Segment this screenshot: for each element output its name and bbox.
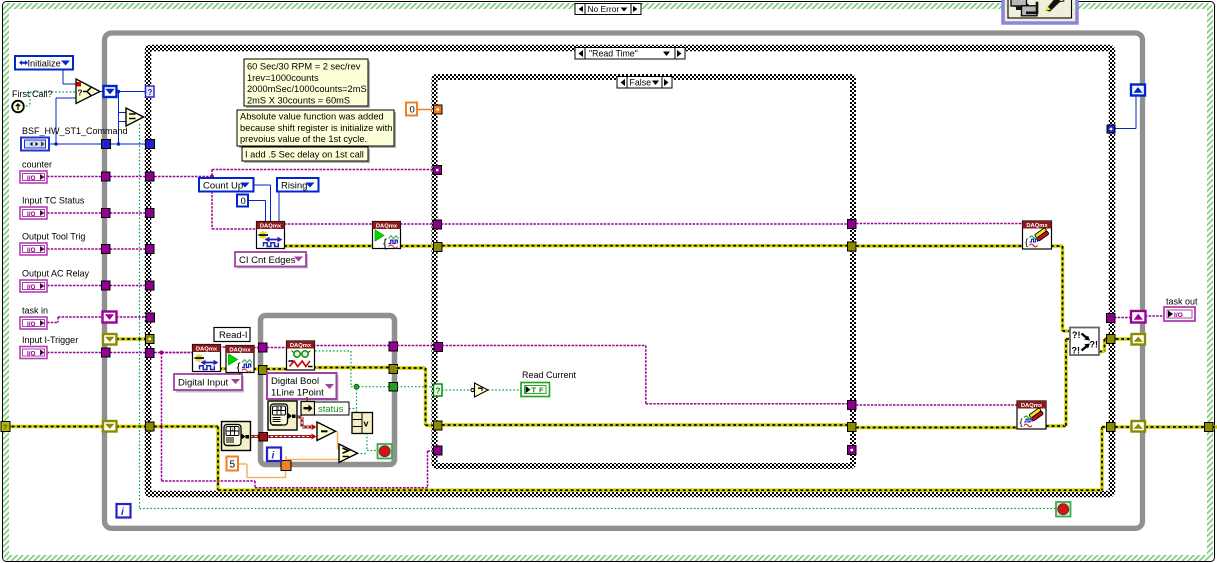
svg-text:Digital Bool: Digital Bool	[271, 376, 319, 387]
unbundle by name node	[301, 402, 315, 416]
svg-text:{: {	[237, 360, 241, 374]
svg-text:1rev=1000counts: 1rev=1000counts	[247, 73, 319, 83]
outer while loop border	[105, 33, 1143, 528]
svg-text:v: v	[364, 419, 369, 429]
case selector label "False"	[617, 77, 672, 89]
terminal BSF_HW_ST1_Command (enum)	[21, 138, 49, 151]
wire bool junction down to OR	[356, 389, 358, 413]
subtract node	[317, 422, 336, 441]
tunnels False left (counter pair)	[433, 220, 442, 229]
wire task out	[1114, 317, 1132, 319]
wire Read bool out	[315, 350, 351, 352]
wire tunnel->gte	[285, 456, 287, 460]
wire Output Tool Trig	[47, 248, 147, 250]
svg-text:i: i	[121, 507, 124, 518]
outer case selector terminal	[1, 422, 10, 432]
wire case tunnel->blue SR right	[1115, 128, 1136, 130]
First Call? node	[12, 101, 24, 113]
svg-text:5: 5	[230, 460, 236, 471]
svg-text:I/O: I/O	[27, 211, 36, 218]
False case selector terminal	[434, 384, 443, 396]
svg-text:0: 0	[410, 105, 415, 116]
tunnel error case left (bottom)	[146, 422, 155, 431]
wire create->start (counter chain)	[284, 223, 374, 225]
svg-text:?: ?	[436, 387, 441, 396]
indicator Read Current (TF)	[521, 383, 550, 397]
wire Output AC Relay	[47, 285, 147, 287]
comment box delay	[244, 149, 370, 163]
svg-text:DAQmx: DAQmx	[290, 343, 312, 349]
iteration terminal (outer)	[117, 504, 131, 518]
svg-text:Rising: Rising	[281, 181, 307, 192]
DAQmx Read (digital bool)	[287, 341, 315, 370]
svg-text:?: ?	[78, 89, 83, 98]
svg-text:Count Up: Count Up	[203, 181, 243, 192]
tunnels False right (read chain)	[848, 401, 857, 410]
svg-text:prevoius value of the 1st cycl: prevoius value of the 1st cycle.	[240, 134, 367, 144]
ring constant Digital Bool 1Line 1Point	[269, 375, 339, 401]
tunnel bool inner loop right	[389, 383, 398, 392]
wire Input I-Trigger task	[47, 352, 194, 354]
wire equal->stop (long)	[139, 124, 141, 509]
tunnel blue case right	[1107, 125, 1115, 133]
tunnel error case left (mid)	[146, 335, 155, 344]
wire select->shift register	[100, 91, 104, 93]
wire task in	[47, 322, 58, 324]
wire shift register->case selector	[116, 91, 146, 93]
greater or equal node	[339, 444, 358, 463]
label Read-I	[214, 328, 250, 342]
Get Date/Time node (inner)	[268, 401, 297, 430]
svg-text:i: i	[272, 451, 275, 462]
loop stop terminal (inner)	[378, 444, 393, 459]
tunnel error outer border right	[1205, 423, 1214, 432]
svg-text:0: 0	[241, 196, 246, 207]
blue shift register left	[104, 86, 117, 97]
svg-text:2mS X 30counts = 60mS: 2mS X 30counts = 60mS	[247, 95, 350, 105]
svg-text:1Line 1Point: 1Line 1Point	[271, 388, 324, 399]
iteration terminal (inner)	[267, 448, 281, 462]
wire branch to equal node	[118, 92, 120, 145]
tunnel error case right (bottom)	[1107, 423, 1116, 432]
equal? node	[126, 108, 144, 126]
svg-text:12: 12	[277, 406, 283, 411]
wire clock outer->subtract	[250, 435, 260, 438]
svg-text:I/O: I/O	[27, 175, 36, 182]
tunnel error case right (mid)	[1107, 335, 1116, 344]
wire False->clear (lower)	[856, 404, 1018, 406]
error shift register left (mid)	[103, 334, 117, 345]
DAQmx Clear Task (upper)	[1023, 221, 1052, 249]
wire BSF branch up to select	[55, 98, 57, 144]
wire Rising->create	[278, 191, 280, 223]
wire error out (right edge)	[1115, 425, 1132, 428]
Get Date/Time node (outer)	[222, 422, 251, 451]
wire error inside False (bottom)	[442, 423, 848, 426]
svg-text:False: False	[630, 78, 652, 88]
svg-text:?!: ?!	[1072, 346, 1081, 356]
svg-text:Digital Input: Digital Input	[178, 378, 229, 389]
wire OR->stop (inner)	[366, 433, 368, 451]
wires through False case (top pair)	[441, 223, 848, 225]
svg-text:Absolute value function was ad: Absolute value function was added	[240, 112, 384, 122]
svg-text:I/O: I/O	[27, 284, 36, 291]
wire Count Up->create	[253, 184, 271, 186]
svg-text:12: 12	[231, 427, 237, 432]
case structure "False" border	[435, 77, 854, 466]
wire start->False tunnel	[400, 223, 434, 225]
comment box absolute value	[239, 112, 396, 148]
svg-text:{: {	[1025, 237, 1028, 248]
tunnel task case right	[1107, 314, 1116, 323]
tunnel task case left	[146, 313, 155, 322]
tunnels False left (read chain)	[434, 343, 443, 352]
svg-text:I/O: I/O	[1174, 312, 1183, 319]
svg-text:{: {	[383, 236, 387, 250]
svg-text:60 Sec/30 RPM = 2 sec/rev: 60 Sec/30 RPM = 2 sec/rev	[247, 62, 361, 72]
wire 0->False tunnel (orange)	[417, 109, 434, 111]
ring constant Rising	[277, 178, 319, 192]
tunnel timestamp inner loop left	[259, 433, 268, 442]
task shift register left	[103, 312, 117, 323]
DAQmx Start Task (counter)	[373, 222, 401, 249]
wire Input TC Status	[47, 212, 147, 214]
tunnels False right (counter pair)	[848, 220, 857, 229]
svg-text:task in: task in	[22, 306, 48, 316]
VI icon (top-right corner)	[1003, 0, 1077, 23]
svg-text:Output AC Relay: Output AC Relay	[22, 269, 90, 279]
merge errors node	[1070, 328, 1099, 356]
svg-text:No Error: No Error	[588, 4, 620, 14]
case selector label "No Error"	[575, 4, 641, 15]
wire First Call?->select	[26, 105, 30, 107]
DAQmx Create Channel (counter)	[257, 222, 285, 249]
svg-text:?: ?	[148, 88, 153, 97]
svg-text:DAQmx: DAQmx	[196, 346, 218, 352]
svg-text:Read Current: Read Current	[522, 370, 577, 380]
svg-text:Initialize: Initialize	[28, 59, 61, 69]
DAQmx Create Channel (digital)	[193, 345, 221, 372]
tunnel orange False left	[434, 105, 443, 114]
tunnels inner loop right	[389, 342, 398, 351]
tunnel purple False left (bottom)	[434, 446, 443, 455]
task shift register right	[1131, 311, 1146, 323]
tunnel counter loop border	[102, 172, 111, 181]
svg-text:counter: counter	[22, 160, 52, 170]
svg-text:I/O: I/O	[27, 351, 36, 358]
svg-text:CI Cnt Edges: CI Cnt Edges	[239, 255, 296, 266]
wire error merge->SR right (mid)	[1105, 337, 1132, 340]
compound OR node	[352, 413, 373, 434]
svg-text:Input TC Status: Input TC Status	[22, 196, 85, 206]
case selector label "Read Time"	[575, 48, 685, 60]
wire tunnel->Read	[267, 347, 287, 349]
constant 0 (blue)	[237, 195, 248, 207]
wire 5->inner loop tunnel	[238, 463, 247, 465]
loop stop terminal (outer)	[1056, 502, 1071, 517]
tunnel orange inner loop bottom	[281, 461, 291, 471]
comment box formulas	[246, 61, 370, 108]
svg-text:I/O: I/O	[27, 321, 36, 328]
svg-text:because shift register is init: because shift register is initialize wit…	[240, 123, 392, 133]
NOT node	[475, 383, 489, 397]
wire error to case	[116, 425, 148, 428]
svg-text:Output Tool Trig: Output Tool Trig	[22, 232, 85, 242]
svg-text:Input I-Trigger: Input I-Trigger	[22, 335, 78, 345]
tunnel counter case border	[146, 172, 155, 181]
svg-text:?!: ?!	[1090, 340, 1099, 350]
blue shift register right	[1131, 85, 1145, 96]
DAQmx Start Task (digital)	[226, 346, 254, 373]
enum constant Initialize	[15, 56, 73, 70]
tunnel counter False border	[433, 166, 442, 175]
wire subtract->gte	[335, 431, 338, 433]
case structure "Read Time" border	[148, 48, 1112, 494]
coercion dot	[77, 82, 82, 87]
tunnels inner loop left	[259, 343, 268, 352]
DAQmx Clear Task (lower)	[1017, 401, 1046, 429]
wire I-Trigger -> create2 continues	[162, 352, 195, 354]
wire clock inner->subtract	[296, 416, 302, 419]
constant 5 (orange)	[227, 457, 239, 471]
wire bool->False selector	[397, 386, 432, 388]
wire create2->start2	[219, 346, 227, 348]
wire purple Z inside False	[442, 345, 646, 347]
case selector terminal (Read Time)	[146, 86, 155, 97]
svg-text:{: {	[1020, 417, 1023, 428]
wire selector->NOT	[442, 389, 471, 391]
ring constant Count Up	[199, 178, 254, 192]
svg-text:Read-I: Read-I	[219, 330, 248, 341]
svg-text:?: ?	[3, 425, 7, 432]
svg-text:DAQmx: DAQmx	[229, 347, 251, 353]
wire clear error down to merge	[1051, 244, 1063, 247]
tunnel BSF loop border	[102, 140, 111, 149]
tunnel BSF case border	[146, 140, 155, 149]
select node	[76, 79, 100, 104]
svg-text:I add .5 Sec delay on 1st call: I add .5 Sec delay on 1st call	[245, 150, 364, 160]
wire inner loop->False tunnels	[397, 345, 435, 347]
wire counter task	[47, 176, 212, 178]
wire error in (bottom, from outer selector)	[6, 425, 104, 428]
ring constant Digital Input	[176, 377, 244, 393]
wire BSF command	[49, 143, 102, 145]
svg-text:T: T	[532, 386, 537, 395]
svg-text:F: F	[539, 386, 544, 395]
svg-text:?!: ?!	[1072, 330, 1081, 340]
error shift register right (bottom)	[1132, 421, 1146, 432]
svg-text:DAQmx: DAQmx	[376, 223, 398, 229]
svg-text:"Read Time": "Read Time"	[589, 49, 638, 59]
constant 0 (orange)	[406, 103, 417, 116]
wire 0->create	[248, 200, 266, 202]
tunnel purple False right (bottom, unwired)	[848, 446, 857, 455]
ring constant CI Cnt Edges	[237, 254, 308, 269]
wire False->clear (upper)	[856, 223, 1024, 225]
wire NOT->Read Current	[488, 389, 521, 391]
svg-text:BSF_HW_ST1_Command: BSF_HW_ST1_Command	[22, 126, 128, 136]
wire error stub (mid shift register)	[116, 337, 148, 340]
inner while loop border	[261, 316, 395, 465]
svg-text:task out: task out	[1166, 297, 1198, 307]
status element box	[315, 402, 350, 415]
svg-text:DAQmx: DAQmx	[1021, 403, 1043, 409]
wire Read->right tunnels	[313, 345, 390, 347]
wire status->OR	[349, 408, 357, 410]
wire clear2 error up to merge	[1046, 424, 1066, 427]
wire gte->stop join	[357, 453, 367, 455]
svg-text:DAQmx: DAQmx	[1026, 223, 1048, 229]
wire start2->inner loop	[253, 347, 260, 349]
svg-text:I/O: I/O	[27, 247, 36, 254]
svg-text:First Call?: First Call?	[12, 89, 53, 99]
wire Initialize->select	[62, 69, 64, 84]
svg-text:status: status	[318, 404, 344, 415]
svg-text:DAQmx: DAQmx	[260, 223, 282, 229]
stub ring->unbundle	[306, 397, 308, 402]
error shift register right (mid)	[1132, 334, 1146, 345]
error shift register left (bottom)	[103, 421, 117, 432]
svg-text:2000mSec/1000counts=2mS: 2000mSec/1000counts=2mS	[247, 84, 367, 94]
